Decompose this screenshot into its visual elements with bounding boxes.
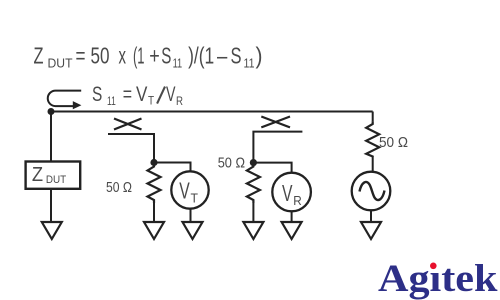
node junction at Z_DUT tap	[48, 108, 55, 115]
svg-text:50 Ω: 50 Ω	[379, 135, 408, 151]
wire Z_DUT to ground	[50, 189, 52, 222]
svg-text:+: +	[149, 43, 160, 69]
svg-text:Agıtek: Agıtek	[378, 257, 498, 300]
svg-text:50: 50	[91, 43, 110, 69]
formula Z_DUT = 50 x (1+S11)/(1-S11)	[34, 43, 263, 71]
coupler X2	[261, 117, 290, 128]
svg-text:x: x	[119, 43, 127, 69]
resistor R3 50 ohm	[366, 121, 379, 157]
formula S11 = VT/VR	[92, 83, 183, 108]
svg-text:T: T	[191, 191, 199, 206]
label VT	[179, 178, 198, 206]
resistor R2 50 ohm	[247, 163, 260, 203]
svg-text:DUT: DUT	[46, 174, 67, 186]
svg-text:)/(1: )/(1	[188, 43, 214, 69]
wire to VR meter	[253, 163, 291, 173]
svg-text:–: –	[217, 43, 227, 69]
ground below source	[361, 222, 381, 239]
Z_DUT box	[26, 162, 81, 189]
svg-text:=: =	[76, 43, 86, 69]
node junction VR branch	[250, 159, 257, 166]
svg-text:11: 11	[107, 94, 116, 108]
svg-text:V: V	[166, 83, 176, 106]
svg-text:V: V	[282, 180, 293, 206]
wire R1 to ground	[153, 203, 155, 222]
label VR	[282, 180, 302, 208]
svg-text:S: S	[161, 43, 171, 69]
wire VT to ground	[190, 209, 192, 222]
svg-text:=: =	[123, 83, 132, 106]
svg-text:R: R	[293, 193, 302, 208]
logo Agitek	[378, 257, 498, 300]
ground below VT	[183, 222, 203, 239]
label Z_DUT	[32, 164, 67, 186]
svg-text:S: S	[92, 83, 102, 106]
svg-text:): )	[256, 43, 263, 69]
wire source drop	[372, 112, 374, 122]
wire source to ground	[370, 210, 372, 221]
voltmeter VT	[171, 171, 208, 208]
svg-text:Z: Z	[32, 164, 43, 186]
svg-text:11: 11	[244, 56, 255, 71]
wire coupler 1 arm	[108, 134, 154, 163]
wire R3 to source	[372, 157, 374, 172]
wire R2 to ground	[252, 203, 254, 222]
svg-text:S: S	[231, 43, 242, 69]
svg-text:T: T	[148, 94, 155, 108]
wire coupler 2 arm	[253, 132, 302, 163]
svg-text:50 Ω: 50 Ω	[218, 156, 245, 172]
reflection loop arrow	[48, 91, 82, 110]
svg-text:V: V	[179, 178, 190, 204]
svg-text:50 Ω: 50 Ω	[106, 180, 132, 196]
wire to VT meter	[154, 163, 191, 172]
svg-text:(1: (1	[133, 43, 145, 69]
voltmeter VR	[272, 173, 311, 212]
source generator	[352, 172, 391, 211]
svg-text:11: 11	[173, 56, 183, 71]
ground below R2	[243, 222, 263, 239]
svg-text:R: R	[176, 94, 183, 108]
svg-text:V: V	[136, 83, 147, 106]
ground below R1	[144, 222, 164, 239]
svg-text:DUT: DUT	[48, 56, 73, 71]
node junction VT branch	[150, 159, 157, 166]
svg-text:Z: Z	[34, 43, 44, 69]
ground below Z_DUT	[42, 222, 62, 239]
wire Z_DUT drop	[50, 112, 52, 162]
resistor R1 50 ohm	[148, 163, 161, 204]
ground below VR	[282, 222, 302, 239]
wire main horizontal bus	[50, 111, 373, 113]
wire VR to ground	[291, 211, 293, 221]
coupler X1	[114, 119, 142, 130]
